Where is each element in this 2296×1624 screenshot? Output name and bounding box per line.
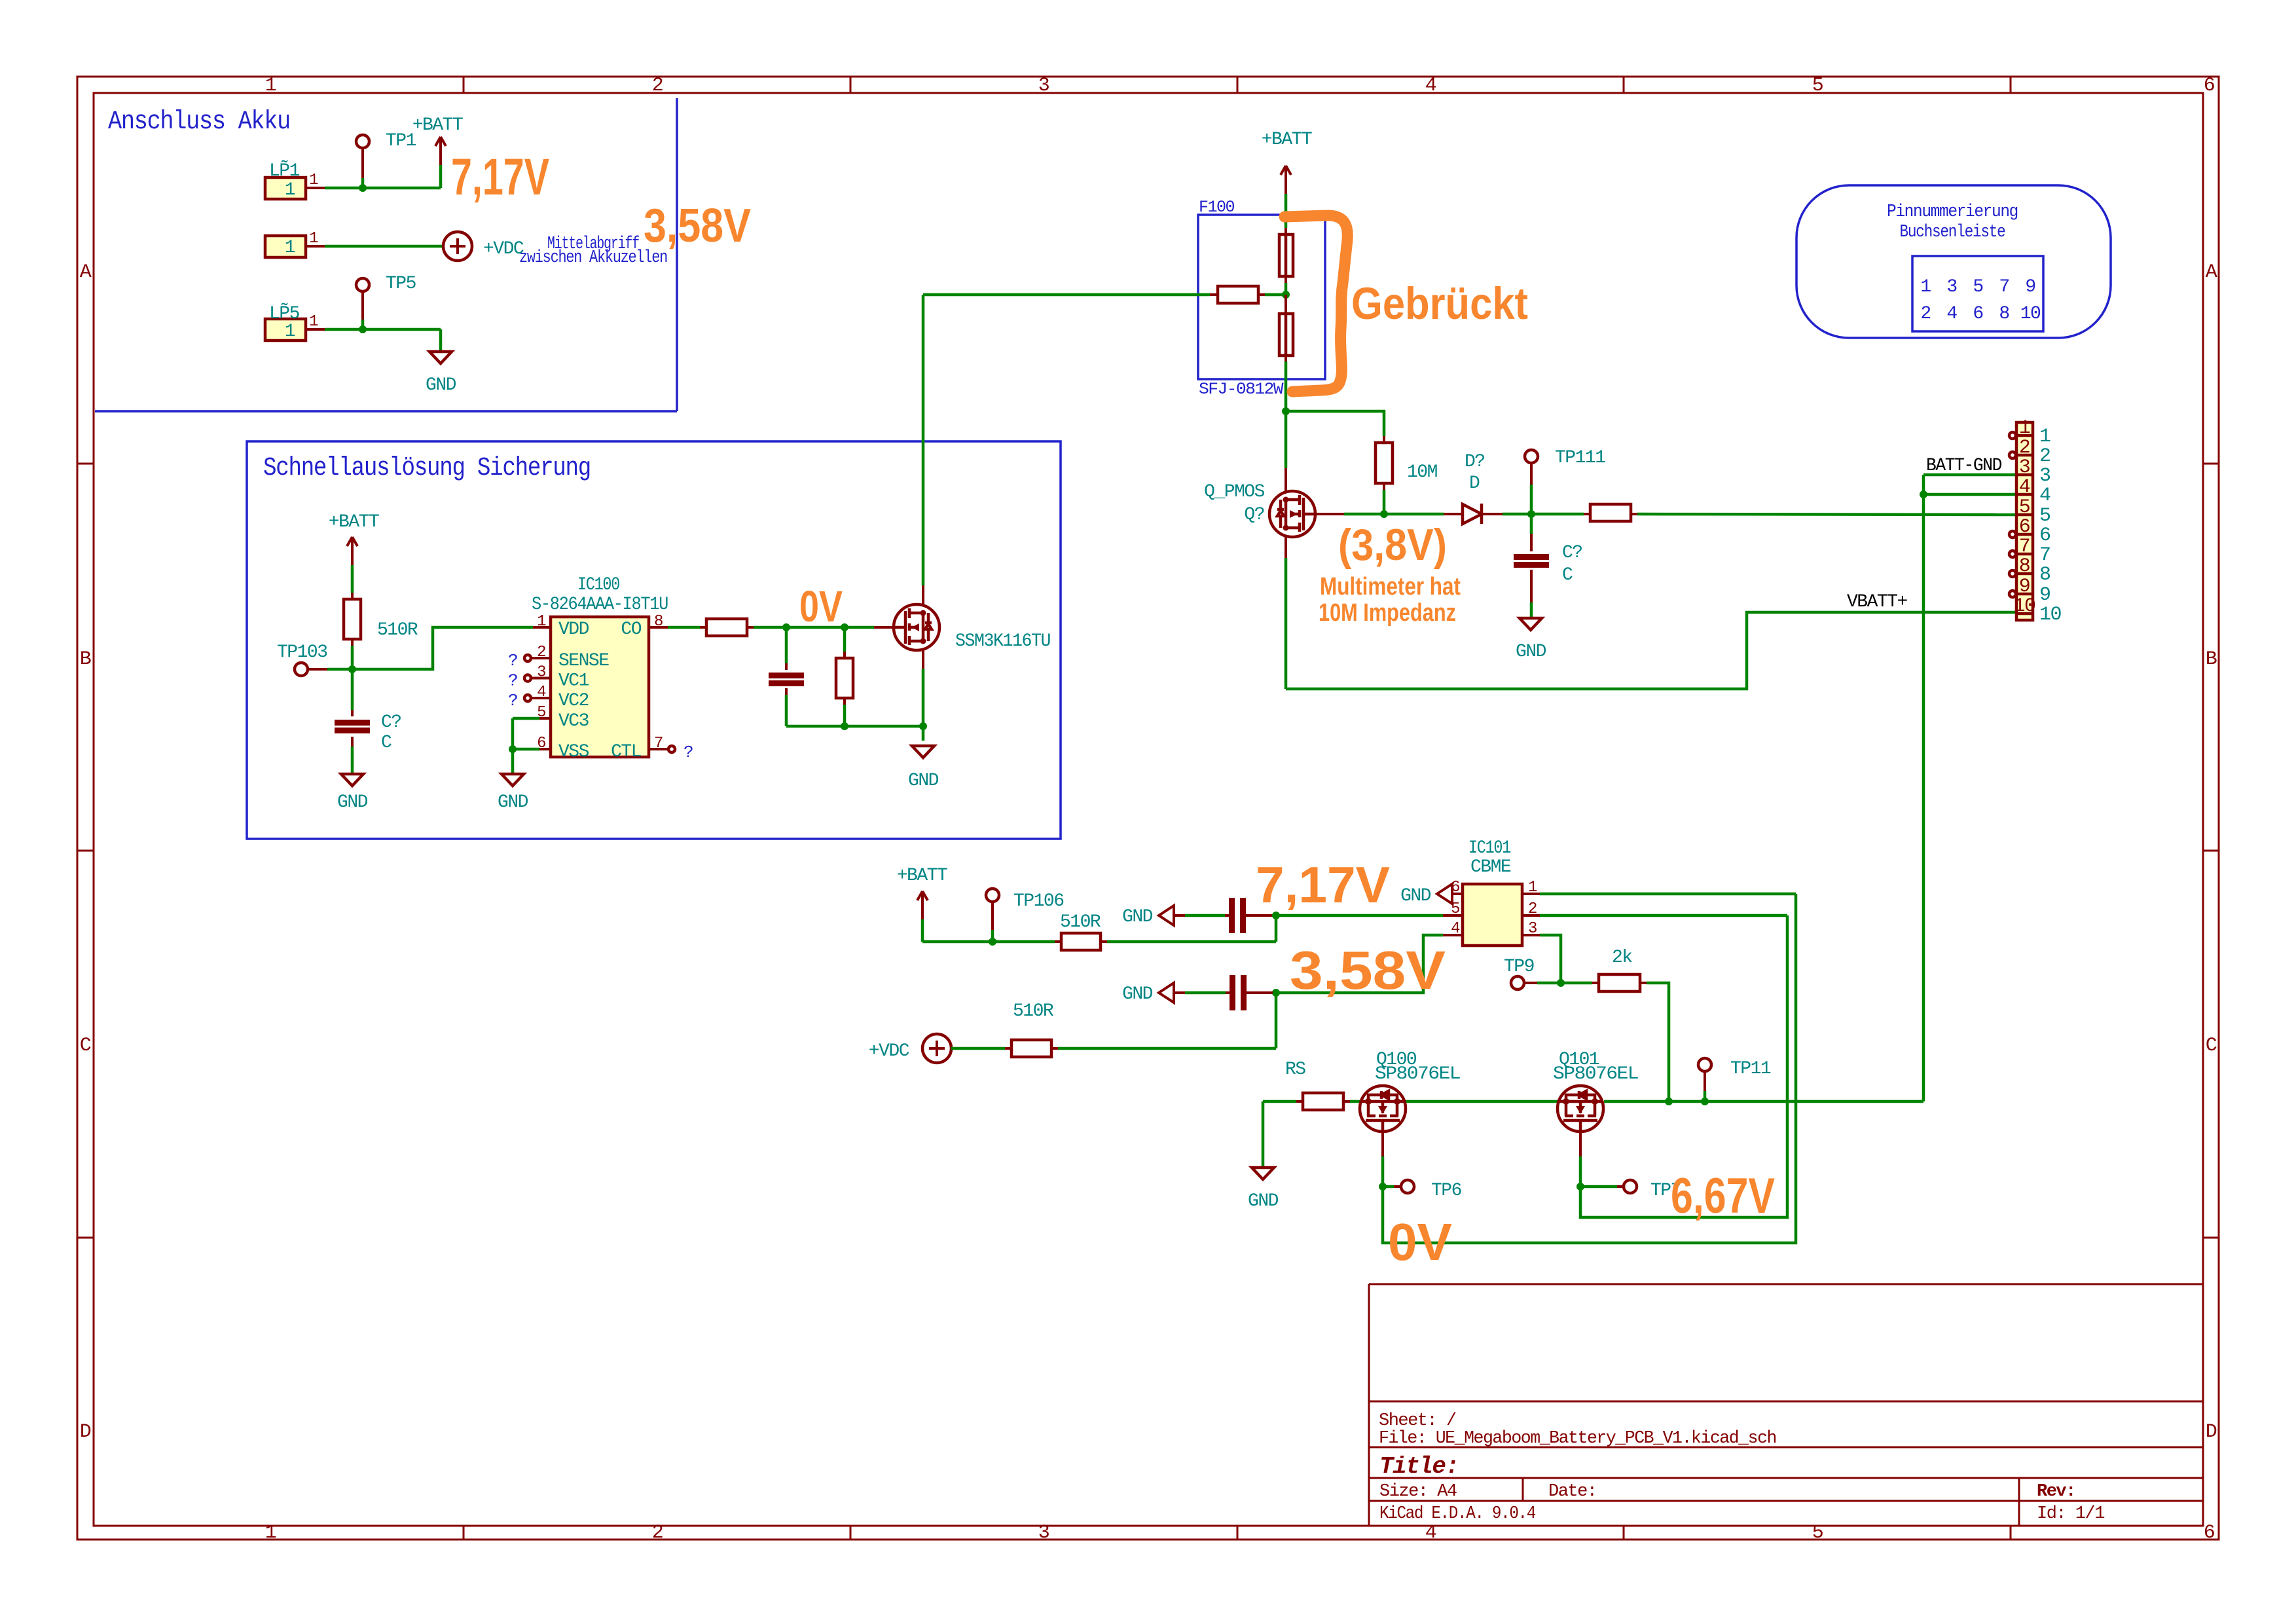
svg-text:2: 2 bbox=[2019, 437, 2030, 459]
svg-text:5: 5 bbox=[2019, 496, 2030, 519]
svg-text:1: 1 bbox=[309, 230, 318, 248]
svg-text:Q_PMOS: Q_PMOS bbox=[1204, 482, 1265, 502]
svg-text:SENSE: SENSE bbox=[558, 651, 609, 671]
svg-text:Size: A4: Size: A4 bbox=[1379, 1482, 1457, 1502]
svg-text:C?: C? bbox=[381, 712, 401, 733]
svg-text:VC2: VC2 bbox=[558, 691, 589, 711]
svg-text:GND: GND bbox=[1248, 1191, 1279, 1211]
svg-text:?: ? bbox=[683, 743, 693, 762]
svg-text:2k: 2k bbox=[1612, 948, 1632, 968]
svg-text:+VDC: +VDC bbox=[869, 1041, 909, 1061]
svg-text:1: 1 bbox=[2039, 426, 2050, 448]
svg-text:C: C bbox=[381, 733, 392, 753]
svg-text:Anschluss Akku: Anschluss Akku bbox=[108, 107, 290, 137]
svg-text:8: 8 bbox=[2019, 555, 2030, 578]
svg-text:+VDC: +VDC bbox=[483, 239, 524, 259]
svg-text:VDD: VDD bbox=[558, 619, 589, 640]
svg-text:B: B bbox=[2206, 648, 2217, 671]
svg-text:SP8076EL: SP8076EL bbox=[1375, 1064, 1461, 1084]
svg-text:F100: F100 bbox=[1199, 198, 1235, 217]
svg-text:5: 5 bbox=[1812, 75, 1823, 97]
svg-text:3: 3 bbox=[2039, 465, 2050, 487]
svg-text:9: 9 bbox=[2025, 277, 2035, 297]
svg-text:9: 9 bbox=[2019, 576, 2030, 598]
svg-text:6: 6 bbox=[2204, 75, 2215, 97]
svg-text:510R: 510R bbox=[1013, 1001, 1054, 1022]
svg-text:1: 1 bbox=[265, 75, 276, 97]
svg-text:VSS: VSS bbox=[558, 742, 589, 762]
svg-text:4: 4 bbox=[1425, 1522, 1436, 1544]
svg-text:510R: 510R bbox=[1060, 912, 1101, 932]
svg-text:1: 1 bbox=[285, 238, 295, 258]
svg-text:KiCad E.D.A. 9.0.4: KiCad E.D.A. 9.0.4 bbox=[1379, 1504, 1535, 1524]
svg-text:C?: C? bbox=[1562, 543, 1582, 563]
svg-text:5: 5 bbox=[2039, 505, 2050, 527]
svg-text:2: 2 bbox=[652, 75, 663, 97]
svg-text:1: 1 bbox=[309, 313, 318, 331]
svg-text:10: 10 bbox=[2013, 595, 2035, 618]
svg-text:10M Impedanz: 10M Impedanz bbox=[1319, 599, 1456, 627]
svg-text:VC1: VC1 bbox=[558, 671, 589, 692]
svg-text:5: 5 bbox=[1451, 900, 1459, 918]
svg-text:Sheet: /: Sheet: / bbox=[1379, 1411, 1456, 1431]
svg-text:Multimeter hat: Multimeter hat bbox=[1320, 573, 1461, 600]
svg-text:2: 2 bbox=[1920, 304, 1930, 324]
svg-text:VBATT+: VBATT+ bbox=[1847, 592, 1908, 612]
svg-text:GND: GND bbox=[498, 792, 528, 813]
svg-text:10: 10 bbox=[2020, 304, 2041, 324]
svg-text:3: 3 bbox=[1946, 277, 1957, 297]
svg-text:510R: 510R bbox=[377, 620, 418, 640]
svg-text:Schnellauslösung Sicherung: Schnellauslösung Sicherung bbox=[263, 454, 591, 483]
svg-text:D: D bbox=[80, 1421, 91, 1443]
svg-text:Date:: Date: bbox=[1548, 1482, 1597, 1502]
svg-text:4: 4 bbox=[2039, 485, 2050, 507]
svg-text:3: 3 bbox=[1038, 75, 1049, 97]
svg-text:5: 5 bbox=[1973, 277, 1983, 297]
svg-text:LP̃1: LP̃1 bbox=[269, 160, 300, 181]
svg-text:8: 8 bbox=[1999, 304, 2009, 324]
svg-text:GND: GND bbox=[1400, 886, 1431, 906]
svg-text:7,17V: 7,17V bbox=[1256, 856, 1390, 913]
svg-text:GND: GND bbox=[1122, 984, 1153, 1005]
svg-text:2: 2 bbox=[2039, 445, 2050, 468]
svg-text:RS: RS bbox=[1285, 1060, 1305, 1080]
svg-text:Id: 1/1: Id: 1/1 bbox=[2037, 1504, 2104, 1524]
svg-text:1: 1 bbox=[265, 1522, 276, 1544]
svg-text:B: B bbox=[80, 648, 91, 671]
svg-text:GND: GND bbox=[426, 375, 456, 396]
svg-text:TP6: TP6 bbox=[1431, 1181, 1461, 1201]
svg-text:D?: D? bbox=[1465, 452, 1485, 472]
svg-text:7: 7 bbox=[2039, 544, 2050, 566]
svg-text:4: 4 bbox=[1425, 75, 1436, 97]
svg-text:4: 4 bbox=[537, 684, 546, 701]
svg-text:VC3: VC3 bbox=[558, 711, 589, 731]
svg-text:Title:: Title: bbox=[1379, 1453, 1459, 1480]
svg-text:GND: GND bbox=[1516, 642, 1546, 662]
svg-text:1: 1 bbox=[285, 180, 295, 200]
svg-text:2: 2 bbox=[652, 1522, 663, 1544]
svg-text:+BATT: +BATT bbox=[329, 512, 379, 532]
svg-text:10: 10 bbox=[2039, 604, 2062, 626]
svg-text:(3,8V): (3,8V) bbox=[1338, 520, 1447, 570]
svg-text:10M: 10M bbox=[1407, 462, 1438, 483]
svg-text:3: 3 bbox=[537, 664, 545, 682]
svg-text:?: ? bbox=[508, 671, 517, 691]
svg-text:1: 1 bbox=[1920, 277, 1931, 297]
svg-text:1: 1 bbox=[285, 322, 295, 342]
svg-text:Gebrückt: Gebrückt bbox=[1351, 278, 1528, 329]
svg-text:6: 6 bbox=[2019, 516, 2030, 538]
svg-text:6: 6 bbox=[2039, 525, 2050, 547]
svg-text:3,58V: 3,58V bbox=[644, 200, 751, 252]
svg-text:C: C bbox=[80, 1035, 91, 1057]
svg-text:1: 1 bbox=[537, 613, 546, 631]
svg-text:IC100: IC100 bbox=[577, 575, 620, 595]
svg-text:?: ? bbox=[508, 691, 517, 710]
svg-text:CO: CO bbox=[621, 619, 641, 640]
svg-text:TP9: TP9 bbox=[1504, 957, 1534, 977]
svg-text:+BATT: +BATT bbox=[412, 115, 463, 136]
svg-text:0V: 0V bbox=[1388, 1213, 1452, 1271]
svg-text:5: 5 bbox=[1812, 1522, 1823, 1544]
svg-text:+BATT: +BATT bbox=[1262, 130, 1312, 150]
svg-text:8: 8 bbox=[2039, 564, 2050, 586]
svg-text:Rev:: Rev: bbox=[2037, 1482, 2075, 1502]
svg-text:7,17V: 7,17V bbox=[451, 147, 549, 206]
svg-text:D: D bbox=[1469, 473, 1480, 494]
svg-text:2: 2 bbox=[537, 644, 545, 661]
svg-text:SSM3K116TU: SSM3K116TU bbox=[955, 631, 1050, 652]
svg-text:3: 3 bbox=[1038, 1522, 1049, 1544]
svg-text:3,58V: 3,58V bbox=[1290, 940, 1446, 1001]
svg-text:TP1: TP1 bbox=[386, 131, 416, 151]
svg-text:1: 1 bbox=[2019, 417, 2030, 439]
svg-text:1: 1 bbox=[309, 172, 318, 189]
svg-text:7: 7 bbox=[2019, 536, 2030, 558]
svg-text:C: C bbox=[2206, 1035, 2217, 1057]
svg-text:+BATT: +BATT bbox=[897, 866, 947, 886]
svg-text:4: 4 bbox=[1946, 304, 1957, 324]
svg-text:GND: GND bbox=[1122, 907, 1153, 927]
svg-text:A: A bbox=[80, 261, 92, 284]
svg-text:S-8264AAA-I8T1U: S-8264AAA-I8T1U bbox=[532, 595, 668, 615]
svg-text:Pinnummerierung: Pinnummerierung bbox=[1887, 202, 2018, 222]
svg-text:SFJ-0812W: SFJ-0812W bbox=[1199, 380, 1284, 399]
svg-text:?: ? bbox=[508, 651, 517, 671]
svg-text:Buchsenleiste: Buchsenleiste bbox=[1900, 223, 2005, 242]
svg-text:3: 3 bbox=[2019, 456, 2030, 479]
svg-text:6: 6 bbox=[1973, 304, 1982, 324]
svg-text:C: C bbox=[1562, 565, 1573, 585]
svg-text:TP111: TP111 bbox=[1555, 448, 1605, 468]
svg-text:SP8076EL: SP8076EL bbox=[1553, 1064, 1639, 1084]
svg-text:A: A bbox=[2206, 261, 2217, 284]
svg-text:6: 6 bbox=[1451, 879, 1459, 896]
svg-text:GND: GND bbox=[337, 792, 368, 813]
svg-text:IC101: IC101 bbox=[1468, 838, 1511, 858]
svg-text:6,67V: 6,67V bbox=[1671, 1168, 1775, 1224]
svg-text:TP5: TP5 bbox=[386, 274, 416, 294]
svg-text:CTL: CTL bbox=[611, 742, 642, 762]
svg-text:Q?: Q? bbox=[1244, 505, 1264, 525]
svg-text:4: 4 bbox=[2019, 476, 2030, 498]
svg-text:TP103: TP103 bbox=[277, 642, 327, 663]
svg-text:9: 9 bbox=[2039, 584, 2050, 606]
svg-text:BATT-GND: BATT-GND bbox=[1926, 456, 2002, 476]
svg-text:6: 6 bbox=[2204, 1522, 2215, 1544]
svg-text:GND: GND bbox=[908, 771, 939, 791]
svg-text:TP11: TP11 bbox=[1730, 1059, 1771, 1079]
svg-text:TP106: TP106 bbox=[1013, 891, 1064, 912]
svg-text:CBME: CBME bbox=[1470, 857, 1511, 877]
svg-text:0V: 0V bbox=[799, 582, 843, 631]
svg-text:7: 7 bbox=[1999, 277, 2009, 297]
svg-text:File: UE_Megaboom_Battery_PCB_: File: UE_Megaboom_Battery_PCB_V1.kicad_s… bbox=[1379, 1429, 1776, 1449]
svg-text:D: D bbox=[2206, 1421, 2217, 1443]
svg-text:LP̃5: LP̃5 bbox=[269, 303, 300, 324]
